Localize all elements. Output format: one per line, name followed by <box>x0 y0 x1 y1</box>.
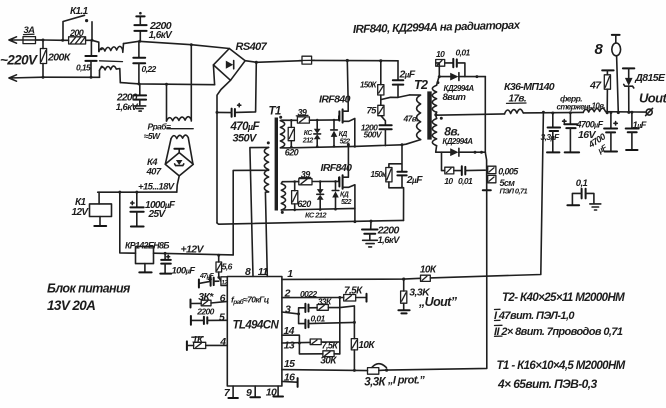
capacitor C 0,01 (upper snubber) <box>445 62 453 64</box>
inductor L1 common-mode choke (top winding) <box>99 44 124 53</box>
resistor R 620 (upper gate-source) <box>290 120 292 147</box>
capacitor C 1µF <box>630 111 633 114</box>
svg-text:25V: 25V <box>148 209 167 220</box>
wire: upper gate line <box>280 119 297 121</box>
wire: pin 13 <box>282 341 310 344</box>
svg-text:RS407: RS407 <box>236 41 268 53</box>
wire: top run, filter to bridge <box>124 41 230 48</box>
inductor L2 К36-МП140 17в <box>505 109 524 114</box>
transformer T1 secondary II <box>281 184 285 210</box>
bridge rectifier VD1 RS407 <box>213 49 245 81</box>
wire: T1 primary center tap to +12V <box>233 170 268 255</box>
svg-text:+12V: +12V <box>181 243 205 255</box>
svg-text:150к: 150к <box>371 170 388 179</box>
svg-text:13V 20A: 13V 20A <box>47 298 95 313</box>
node: T2 center tap <box>436 112 437 119</box>
capacitor C 2200/1,6kV (bottom Y-cap to chassis) <box>139 84 141 95</box>
svg-text:0,01: 0,01 <box>456 48 471 58</box>
wire: secondary I top to diode <box>437 77 451 86</box>
capacitor C 2µF (upper, DC block) <box>397 61 399 80</box>
transformer T3 secondary winding <box>171 135 188 139</box>
svg-text:1µF: 1µF <box>633 120 647 131</box>
resistor R 200 (in series, bypassed by K1.1) <box>69 37 86 44</box>
svg-text:47µF: 47µF <box>199 273 214 280</box>
wire: pin 2 <box>282 297 344 299</box>
wire: shunt return down and left to I-prot bus <box>387 190 487 370</box>
svg-text:КД: КД <box>340 192 349 199</box>
transformer T2 secondary II (8в) <box>440 117 443 120</box>
resistor R 150K (lower) <box>389 145 404 221</box>
resistor R 200K <box>40 49 46 64</box>
wire: bottom AC run <box>43 76 100 78</box>
capacitor C 0,01 (lower snubber) <box>454 170 462 172</box>
svg-text:0,22: 0,22 <box>142 64 157 74</box>
svg-text:IRF840: IRF840 <box>321 162 353 174</box>
svg-text:КД: КД <box>339 131 348 138</box>
diode VD КД522 (upper) <box>333 120 335 146</box>
svg-text:8: 8 <box>595 41 604 58</box>
wire: output rail from center tap <box>436 114 505 115</box>
svg-text:„Uout”: „Uout” <box>418 295 458 309</box>
svg-text:КД2994А: КД2994А <box>442 137 473 146</box>
wire: bridge plus output <box>245 61 256 63</box>
svg-text:6: 6 <box>220 293 226 305</box>
svg-text:~220V: ~220V <box>0 53 38 68</box>
wire: bridge minus lead down <box>217 80 231 223</box>
wire: VD2 to +15..18V rail <box>177 176 179 192</box>
svg-text:TL494CN: TL494CN <box>233 320 280 332</box>
transformer T1 primary winding <box>267 141 270 144</box>
svg-text:8вит: 8вит <box>443 92 467 103</box>
capacitor C 2200/1,6kV (switch node to chassis) <box>370 220 373 223</box>
svg-text:0022: 0022 <box>300 289 317 299</box>
wire: lower source bus <box>281 208 355 221</box>
wire: node to T2 primary top <box>381 95 410 100</box>
node: AC line input L (arrow) <box>9 37 43 43</box>
svg-text:75: 75 <box>367 105 378 116</box>
svg-text:620: 620 <box>285 148 299 158</box>
svg-text:ПЭЛ 0,71: ПЭЛ 0,71 <box>500 187 528 196</box>
diode VD4 КД2994А (lower) <box>436 146 451 153</box>
resistor R 7,5К (pin 2) <box>344 295 356 302</box>
svg-text:1: 1 <box>287 268 293 280</box>
lamp HL 8 <box>612 34 620 36</box>
svg-text:1,6кV: 1,6кV <box>116 102 139 113</box>
svg-text:5: 5 <box>219 312 225 324</box>
svg-text:≈5W: ≈5W <box>144 131 161 141</box>
wire: upper source bus (half-bridge switch node) <box>280 145 402 148</box>
capacitor C 1200/500V (snubber) <box>381 116 386 125</box>
svg-text:+15...18V: +15...18V <box>138 181 175 192</box>
svg-text:Блок питания: Блок питания <box>47 282 131 296</box>
svg-text:5,6: 5,6 <box>222 262 233 272</box>
inductor L1 common-mode choke (bottom winding) <box>100 66 121 83</box>
svg-text:2µF: 2µF <box>406 174 423 186</box>
svg-text:КС: КС <box>304 130 314 137</box>
svg-text:350V: 350V <box>233 133 259 145</box>
relay K1 coil <box>98 192 100 204</box>
bridge rectifier VD2 К4 407 <box>165 138 193 163</box>
svg-text:500V: 500V <box>364 129 383 139</box>
transformer T1 core <box>275 118 278 211</box>
svg-text:150К: 150К <box>360 81 378 90</box>
transformer T1 secondary I <box>279 116 282 119</box>
capacitor C 100µF <box>164 252 167 255</box>
svg-text:200К: 200К <box>47 52 72 64</box>
svg-text:Д815Е: Д815Е <box>634 72 666 84</box>
svg-text:„I prot.”: „I prot.” <box>387 375 425 387</box>
op-amp U1 TL494CN (PWM controller box) <box>227 277 282 387</box>
capacitor C 0,22 (X-cap) <box>138 41 140 57</box>
wire: network node verticals <box>339 298 341 354</box>
svg-text:13: 13 <box>284 340 295 352</box>
capacitor C 0022 + resistor R 33К (pin3-pin2) <box>299 308 305 314</box>
zener VD КС212 (lower) <box>319 182 321 210</box>
wire: minus bus along bottom of converter <box>217 220 404 224</box>
svg-text:407: 407 <box>146 167 162 178</box>
svg-text:0,1: 0,1 <box>576 178 588 189</box>
svg-text:IRF840, КД2994А на радиаторах: IRF840, КД2994А на радиаторах <box>353 20 521 36</box>
transformer T2 primary 47в <box>410 95 421 140</box>
svg-text:4× 65вит. ПЭВ-0,3: 4× 65вит. ПЭВ-0,3 <box>497 377 597 391</box>
ground (2200 cap) <box>363 240 378 247</box>
wire: lower gate line <box>281 182 299 184</box>
capacitor C 470µF/350V <box>236 62 256 112</box>
resistor R 5,6 <box>217 254 220 257</box>
wire: output rail to terminal <box>606 111 646 113</box>
svg-text:1,6кV: 1,6кV <box>149 30 174 41</box>
wire: T1 primary bottom tap to TL494 pin 11 <box>265 192 268 276</box>
svg-text:Т2: Т2 <box>414 78 428 92</box>
svg-text:Т1: Т1 <box>269 106 281 118</box>
svg-text:7,5К: 7,5К <box>322 340 340 350</box>
inductor L3 ферр.стержень 10в <box>583 108 606 112</box>
resistor R 150K (upper) <box>379 59 382 62</box>
resistor R 10К (feedback) <box>421 275 431 281</box>
diode VD КД522 (lower) <box>335 181 337 209</box>
svg-text:470µF: 470µF <box>230 121 261 133</box>
resistor R 620 (lower gate-source) <box>294 182 296 210</box>
svg-text:стержень: стержень <box>557 102 594 111</box>
zener VD КС212 (upper) <box>316 120 318 147</box>
capacitor C 4700µF 16V <box>569 111 572 114</box>
capacitor C 3,3µF <box>551 112 554 115</box>
node: output terminal <box>646 109 652 115</box>
svg-text:IRF840: IRF840 <box>319 94 351 106</box>
capacitor C 4700µF (second) <box>609 111 612 114</box>
wire: switch to filter choke <box>92 40 99 51</box>
pin 12 box <box>221 277 227 286</box>
wire: pin 1 feedback line <box>282 278 421 279</box>
svg-text:Т2- К40×25×11 М2000НМ: Т2- К40×25×11 М2000НМ <box>502 292 625 304</box>
svg-text:КР142ЕН8Б: КР142ЕН8Б <box>125 240 169 250</box>
resistor R 10 (upper snubber) <box>436 63 440 77</box>
svg-text:7,5К: 7,5К <box>344 285 363 296</box>
fuse FU1 3A <box>23 37 36 44</box>
svg-text:0,01: 0,01 <box>458 176 473 186</box>
wire: T1 primary top tap to TL494 pin 8 <box>250 147 269 276</box>
diode VD3 КД2994А (upper) <box>450 73 458 81</box>
resistor R 3,3K (to Uout gnd) <box>403 279 405 291</box>
ground (chassis, bottom Y-cap) <box>134 106 146 111</box>
svg-text:47: 47 <box>589 80 602 92</box>
svg-text:30К: 30К <box>320 356 337 367</box>
switch K1.1 <box>63 15 92 40</box>
svg-text:8: 8 <box>245 266 251 278</box>
svg-text:620: 620 <box>297 199 311 209</box>
wire: bottom AC to bridge left vertex <box>213 65 214 85</box>
svg-text:10: 10 <box>266 387 277 399</box>
wire: pin 14 to pin 13 <box>282 335 300 343</box>
capacitor C 2200/1,6kV (top Y-cap to chassis) <box>138 40 141 43</box>
resistor R 39 (upper gate) <box>297 117 309 123</box>
svg-text:12V: 12V <box>72 207 90 218</box>
wire: +12V rail <box>154 253 234 255</box>
svg-text:10: 10 <box>444 176 453 186</box>
transformer T2 core <box>427 91 431 139</box>
transformer T2 secondary I (8вит) <box>436 81 439 84</box>
wire: top AC run to switch <box>36 39 64 41</box>
resistor R 39 (lower gate) <box>299 179 312 185</box>
svg-text:9: 9 <box>246 387 252 399</box>
svg-text:II 2× 8вит. 7проводов 0,71: II 2× 8вит. 7проводов 0,71 <box>494 326 623 338</box>
fuse/fusible resistor on +310V rail <box>302 56 312 64</box>
svg-text:0,01: 0,01 <box>311 314 326 324</box>
resistor R 3,3К (I prot) with jumper arc <box>368 368 379 375</box>
node junction dots AC <box>42 39 45 42</box>
capacitor C 1000µF/25V <box>135 191 138 194</box>
svg-text:10К: 10К <box>420 265 437 276</box>
svg-text:0,15: 0,15 <box>76 62 91 72</box>
svg-text:15: 15 <box>284 358 295 370</box>
svg-text:fраб≈70кГц: fраб≈70кГц <box>231 295 270 307</box>
svg-text:200: 200 <box>69 28 84 38</box>
resistor R 10 (lower snubber) <box>442 152 445 170</box>
svg-text:47в.: 47в. <box>403 114 419 124</box>
inductor L1 core bar <box>100 60 123 63</box>
svg-text:2200: 2200 <box>196 306 214 316</box>
svg-text:К36-МП140: К36-МП140 <box>504 81 555 93</box>
svg-text:12: 12 <box>221 279 228 286</box>
wire: 10К to Uout rail <box>430 112 543 278</box>
resistor R 75 (snubber) <box>380 100 382 106</box>
svg-text:10К: 10К <box>358 340 375 351</box>
svg-text:10в.: 10в. <box>592 102 606 111</box>
svg-text:4: 4 <box>219 336 226 348</box>
capacitor C 0,15 (X-cap) <box>90 40 92 55</box>
resistor R 47 <box>602 69 613 71</box>
wire: pin 15 I-prot bus <box>282 370 368 371</box>
svg-text:Т1 - К16×10×4,5 М2000НМ: Т1 - К16×10×4,5 М2000НМ <box>497 360 626 372</box>
wire: +310V rail <box>256 60 398 62</box>
ground (0,1 cap) <box>590 204 601 210</box>
wire: output rail <box>523 111 583 114</box>
ground (pin 7) <box>232 386 234 397</box>
svg-text:0,005: 0,005 <box>498 167 519 177</box>
svg-text:1,6кV: 1,6кV <box>378 235 401 246</box>
svg-text:33К: 33К <box>318 296 332 306</box>
svg-text:К1.1: К1.1 <box>70 6 89 17</box>
ground (pin 10) <box>277 386 279 396</box>
svg-text:212: 212 <box>302 138 314 145</box>
ground (regulator tab) <box>144 264 146 272</box>
wire: pin 16 stub <box>282 380 297 383</box>
wire: pin 3 <box>282 312 299 314</box>
svg-text:3,3К: 3,3К <box>364 376 386 388</box>
capacitor C 2µF (lower) <box>397 172 406 176</box>
wire: +15...18V rail <box>98 191 177 193</box>
capacitor C 0,01 (pin 3) <box>299 314 305 324</box>
node: AC line input N (arrow) <box>9 75 43 81</box>
resistor R 10К (vertical) <box>351 339 357 350</box>
transformer T3 core bar <box>167 128 193 130</box>
wire: rectifier cathode bus down <box>484 77 486 153</box>
svg-text:КС 212: КС 212 <box>305 211 327 220</box>
svg-text:I 47вит. ПЭЛ-1,0: I 47вит. ПЭЛ-1,0 <box>494 310 575 322</box>
svg-text:Uout: Uout <box>639 91 666 106</box>
regulator U2 КР142ЕН8Б <box>118 191 121 194</box>
ground stub at VD2 top vertex <box>178 149 180 152</box>
shunt R 0,005 (5см ПЭЛ 0,71) <box>485 152 486 190</box>
transformer T3 (aux) primary Рраб, from AC lines <box>165 83 168 86</box>
svg-text:10: 10 <box>436 49 445 59</box>
svg-text:100µF: 100µF <box>172 266 196 277</box>
ground (pin 9) <box>254 386 256 397</box>
resistor R 30К <box>299 343 323 354</box>
svg-text:522: 522 <box>341 199 352 206</box>
resistor R 7,5К (pin 13) <box>310 339 321 345</box>
svg-text:11: 11 <box>258 266 268 278</box>
zener VD5 Д815Е <box>623 67 634 69</box>
